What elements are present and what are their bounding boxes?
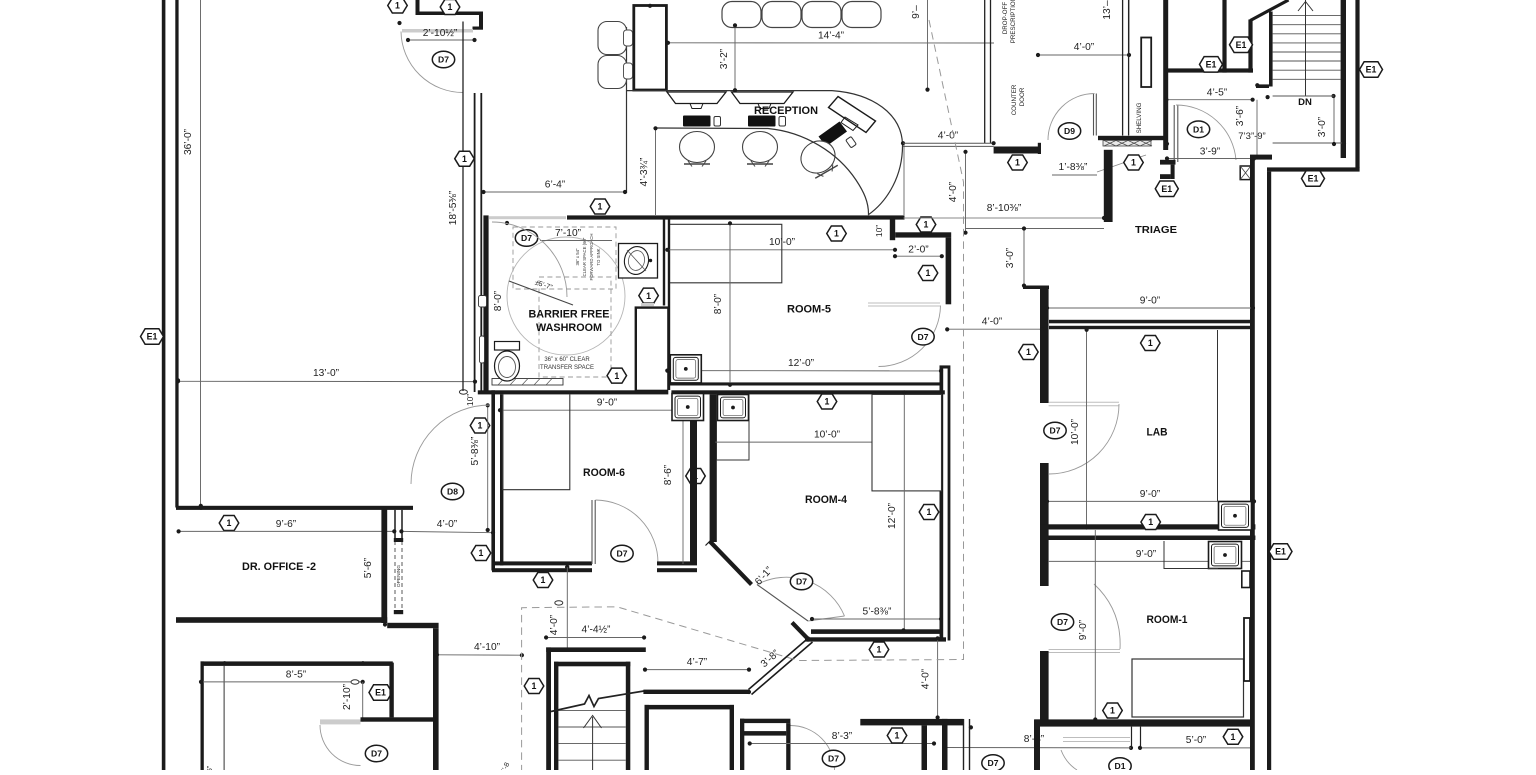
opening dashed jamb a xyxy=(394,541,396,612)
wall: D9 corridor east face xyxy=(1128,0,1130,136)
wall: lower-left room east xyxy=(389,663,393,718)
opening dashed jamb b xyxy=(401,541,403,612)
dim 9'-0 line lab top xyxy=(1047,307,1253,309)
wall: vestibule sw step c xyxy=(1160,174,1171,179)
svg-text:9’-0”: 9’-0” xyxy=(1140,489,1161,500)
svg-text:6’-4”: 6’-4” xyxy=(545,180,566,191)
node stair connector b xyxy=(1266,95,1270,99)
room4 sink B xyxy=(718,395,749,421)
office chair 3 xyxy=(795,135,843,183)
svg-text:1: 1 xyxy=(1231,732,1236,742)
oval tick near D8 wall xyxy=(459,390,467,394)
door tag D7 washroom xyxy=(515,230,537,247)
wall: room5 north east jog vertical xyxy=(890,220,895,241)
keynote hexagon E1 left wall xyxy=(141,329,164,345)
wall: lower-left room west xyxy=(201,661,204,770)
wall: elevator east xyxy=(730,705,734,770)
wall: E-room east xyxy=(1222,0,1226,73)
keynote hexagon 1 below room6 xyxy=(533,573,553,588)
door tag D1 xyxy=(1187,121,1209,138)
diagonal cap a xyxy=(706,538,714,546)
wall: vestibule sw step a xyxy=(1160,160,1176,165)
node stair connector a xyxy=(1255,83,1259,87)
bottom corridor thin line b xyxy=(969,719,971,770)
wall: bottom corridor bar a xyxy=(740,719,790,723)
dim 10'-0 line room4 xyxy=(713,441,939,443)
stair treads lower xyxy=(558,709,625,711)
dim 10'-0 lab vertical line xyxy=(1086,330,1088,528)
door lab leaf (light) xyxy=(1049,401,1119,403)
svg-text:E1: E1 xyxy=(375,688,386,698)
svg-text:8’-10⅜”: 8’-10⅜” xyxy=(987,203,1022,214)
svg-text:D7: D7 xyxy=(1050,426,1061,436)
svg-text:LAB: LAB xyxy=(1147,427,1168,439)
svg-text:5’-0”: 5’-0” xyxy=(1186,735,1207,746)
svg-text:10’-0”: 10’-0” xyxy=(1070,418,1081,445)
armrest tab left 1 xyxy=(624,30,633,46)
svg-text:4’-7”: 4’-7” xyxy=(687,657,708,668)
washroom faucet dot xyxy=(649,259,652,262)
wall: stair outer west xyxy=(546,647,551,770)
svg-text:COUNTER: COUNTER xyxy=(1011,84,1018,115)
dim 4'-0 line upper right xyxy=(1038,54,1129,56)
wall: room6 south west part a xyxy=(492,561,592,565)
svg-text:1’-8⅜”: 1’-8⅜” xyxy=(1059,162,1088,173)
dim 4'-0 line corridor room6 xyxy=(401,531,493,532)
svg-text:E1: E1 xyxy=(1236,40,1247,50)
phone 3 xyxy=(846,136,857,148)
dim 14'-4 line xyxy=(668,42,994,44)
door tag D7 room6 xyxy=(611,545,633,562)
svg-text:ROOM-4: ROOM-4 xyxy=(805,494,848,506)
door fan leaf line xyxy=(757,585,808,622)
door D7 swing arc top-left xyxy=(401,32,464,93)
wall: room4 sw diagonal lower xyxy=(792,623,810,641)
node landing xyxy=(1342,141,1346,145)
keynote hexagon E1 (lower) xyxy=(1200,57,1223,73)
svg-text:1: 1 xyxy=(834,229,839,239)
opening solid jamb upper b xyxy=(401,510,403,542)
svg-text:8’-5”: 8’-5” xyxy=(286,670,307,681)
node washroom nw xyxy=(505,221,509,225)
svg-text:4’-5”: 4’-5” xyxy=(1207,88,1228,99)
svg-text:4’-3¾”: 4’-3¾” xyxy=(639,157,650,186)
waiting chair single left 2 xyxy=(598,56,627,89)
dim 9'-0 line lab bottom xyxy=(1047,500,1254,502)
waiting chair single left 1 xyxy=(598,22,627,55)
node y218 xyxy=(1102,216,1106,220)
dim 12'-0 room4 vertical line xyxy=(903,393,905,630)
svg-text:1: 1 xyxy=(646,291,651,301)
door D1 leaf lines xyxy=(1173,105,1175,162)
svg-text:14’-4”: 14’-4” xyxy=(818,31,845,42)
svg-text:4’-0”: 4’-0” xyxy=(948,181,959,202)
svg-text:1: 1 xyxy=(448,2,453,12)
wall: room5 east upper xyxy=(946,238,952,305)
keynote hexagon 1 west corridor upper xyxy=(470,418,490,433)
svg-text:36” x 60” CLEAR: 36” x 60” CLEAR xyxy=(544,357,590,363)
keynote hexagon 1 right of D9 xyxy=(1124,155,1144,170)
keynote hexagon 1 room1 south xyxy=(1223,729,1243,744)
phone 1 xyxy=(714,117,721,127)
washroom entry door leaf diagonal xyxy=(509,281,573,305)
svg-text:18’-5⅜”: 18’-5⅜” xyxy=(448,190,459,225)
node 9' dim xyxy=(925,88,929,92)
svg-text:D7: D7 xyxy=(438,55,449,65)
door frame hatch second diagonal xyxy=(1240,166,1251,180)
stair lower line y96 xyxy=(1273,95,1334,97)
node counter sw xyxy=(992,141,996,145)
svg-text:DROP-OFF: DROP-OFF xyxy=(1002,2,1009,35)
svg-text:10’-0”: 10’-0” xyxy=(814,430,841,441)
svg-text:1: 1 xyxy=(227,518,232,528)
wall: left exterior inner face xyxy=(175,0,178,508)
svg-text:1: 1 xyxy=(1110,706,1115,716)
node llr b xyxy=(361,661,365,665)
wall: room4 south outer face xyxy=(805,637,946,641)
keynote hexagon 1 washroom east wall xyxy=(639,288,659,303)
svg-text:TRIAGE: TRIAGE xyxy=(1135,224,1177,236)
keynote hexagon 1 corridor west of room6 xyxy=(471,546,491,561)
wall: diagonal corridor b xyxy=(752,642,813,695)
svg-text:D7: D7 xyxy=(988,758,999,768)
door room1 swing arc xyxy=(1094,584,1120,649)
stair center rail xyxy=(1305,0,1307,96)
svg-text:5”: 5” xyxy=(207,765,214,770)
wall: stair inner east xyxy=(626,662,631,770)
dim 10'-0 line room5 xyxy=(667,249,895,251)
washroom sink inner oval xyxy=(627,249,647,272)
washroom grab bar hatching xyxy=(498,379,504,386)
dim 13' extension vertical xyxy=(1128,0,1130,55)
waiting chair top row 2 xyxy=(762,2,801,28)
dim 8'-6 vertical line xyxy=(682,410,684,564)
svg-text:13’–: 13’– xyxy=(1102,0,1113,20)
node at 36'-0 dim bottom xyxy=(199,504,203,508)
svg-text:D7: D7 xyxy=(521,233,532,243)
svg-text:12’-0”: 12’-0” xyxy=(788,358,815,369)
wall: room5 se stub horizontal xyxy=(940,365,951,368)
door D9 leaf xyxy=(1093,94,1095,136)
svg-text:10”: 10” xyxy=(465,394,475,406)
dim 5'-8 3/8 line xyxy=(812,618,941,620)
keyboard 2 (black) xyxy=(748,116,776,127)
corner monitor stand xyxy=(841,117,858,131)
wall: corridor step south of office xyxy=(387,623,438,628)
door swing arc lower-left xyxy=(320,725,361,766)
bottom corridor thin line a xyxy=(963,719,965,770)
stair break line xyxy=(551,691,644,712)
svg-text:4’-0”: 4’-0” xyxy=(437,519,458,530)
monitor stand tab 2 xyxy=(758,104,771,109)
dim 4'-0 stair vertical line xyxy=(566,567,568,647)
door D1 room1 leaf (light) xyxy=(1063,737,1130,739)
opening cap top xyxy=(394,538,403,542)
wall: room5 ne jog horizontal xyxy=(895,232,951,237)
washroom closet rectangle xyxy=(636,308,669,391)
door tag D7 room5 xyxy=(912,328,934,345)
svg-text:D9: D9 xyxy=(1064,126,1075,136)
reception counter inner edge xyxy=(657,128,869,214)
light header top of closet xyxy=(641,303,654,306)
reception desk return rectangle xyxy=(634,6,667,91)
dim 9'-6 line xyxy=(179,530,395,532)
wall: A-B connector stub xyxy=(1250,155,1272,160)
svg-text:ROOM-1: ROOM-1 xyxy=(1147,614,1188,626)
svg-text:36’-0”: 36’-0” xyxy=(183,128,194,155)
lab interior line xyxy=(1217,330,1219,501)
wall: bottom center jamb west xyxy=(922,725,928,770)
office chair 1 xyxy=(680,132,715,167)
wall: vestibule sw step b xyxy=(1171,165,1175,179)
svg-text:1: 1 xyxy=(479,548,484,558)
keynote hexagon 1 top-left a xyxy=(388,0,408,13)
dim 6'-4 line xyxy=(484,191,626,193)
wall: corridor east of stairs xyxy=(433,628,439,770)
door room6 leaf xyxy=(591,500,593,564)
opening solid jamb upper a xyxy=(394,510,396,542)
svg-text:1: 1 xyxy=(532,681,537,691)
node room6 south xyxy=(565,565,569,569)
wall: top jog right vertical xyxy=(479,12,483,30)
armrest tab left 2 xyxy=(624,63,633,79)
keynote hexagon 1 top-left b xyxy=(440,0,460,15)
wall: room1 south xyxy=(1035,719,1252,726)
shelving unit rectangle xyxy=(1141,38,1151,88)
wall: washroom west xyxy=(483,215,488,393)
wall: top jog vertical xyxy=(416,0,420,15)
wall: bottom corridor west vertical xyxy=(740,719,744,770)
svg-text:E1: E1 xyxy=(1206,60,1217,70)
door tag D7 bottom b xyxy=(982,755,1004,772)
svg-text:8’-3”: 8’-3” xyxy=(832,731,853,742)
svg-text:CLEAR SPACE (60”: CLEAR SPACE (60” xyxy=(582,237,587,276)
dim 2'-0 line xyxy=(895,255,942,257)
wall: elevator north xyxy=(645,705,735,710)
door jamb a room1 south xyxy=(1131,727,1133,746)
svg-text:D7: D7 xyxy=(617,549,628,559)
keynote hexagon 1 on divider xyxy=(686,469,706,484)
svg-text:RECEPTION: RECEPTION xyxy=(754,105,818,117)
dim 4'-4 1/2 line xyxy=(546,637,644,639)
keynote hexagon E1 below corner xyxy=(1302,171,1325,187)
svg-text:E1: E1 xyxy=(1308,174,1319,184)
wall: dr office east xyxy=(381,509,387,623)
dim 2'-10 1/2 line xyxy=(408,39,475,41)
toilet tank xyxy=(495,342,520,351)
furniture line below chairs xyxy=(626,90,832,92)
lower-left room interior line xyxy=(223,663,225,770)
svg-text:D1: D1 xyxy=(1193,124,1204,134)
white gap in wall at washroom SE xyxy=(668,390,671,395)
svg-text:3’-2”: 3’-2” xyxy=(719,48,730,69)
svg-text:10”: 10” xyxy=(874,225,884,237)
stair arrowhead xyxy=(584,716,602,729)
room1 counter edge xyxy=(1164,541,1218,569)
svg-text:D7: D7 xyxy=(796,577,807,587)
door D1 room1 swing arc xyxy=(1061,750,1077,770)
clear space dashed rect 1 xyxy=(513,227,616,289)
dim 7'-10 line xyxy=(540,240,612,242)
wall: shelving east wall xyxy=(1163,0,1168,150)
dim 9' vertical line top right xyxy=(927,0,929,90)
dim 3'-2 vertical line xyxy=(734,25,736,90)
svg-text:1: 1 xyxy=(541,575,546,585)
wall: lab south face b xyxy=(1040,536,1255,541)
door D8 swing arc xyxy=(411,405,490,484)
svg-text:D7: D7 xyxy=(1057,617,1068,627)
wall: room4 west xyxy=(710,394,717,542)
washroom turning circle xyxy=(507,237,625,355)
room1 sink xyxy=(1209,542,1242,569)
dashed travel path xyxy=(522,20,964,770)
wall: bottom corridor east vertical xyxy=(786,723,790,770)
door tag D7 bottom a xyxy=(822,750,844,767)
reception desk monitor bay 2 xyxy=(732,92,794,104)
svg-text:1: 1 xyxy=(895,731,900,741)
svg-text:3’-0”: 3’-0” xyxy=(1317,116,1328,137)
lower-left door header (light) xyxy=(320,719,361,724)
washroom wall fixture a xyxy=(479,296,487,308)
room4 exam bed xyxy=(872,394,942,491)
svg-text:5’-8⅜”: 5’-8⅜” xyxy=(470,436,481,465)
washroom grab bar strip south xyxy=(492,379,563,386)
wall: shaft east xyxy=(1248,20,1252,73)
svg-text:TO SINK: TO SINK xyxy=(596,248,601,265)
svg-text:3’-6”: 3’-6” xyxy=(1235,105,1246,126)
wall: room1 west xyxy=(1040,651,1049,720)
svg-text:PRESCRIPTION: PRESCRIPTION xyxy=(1010,0,1017,43)
lab sink xyxy=(1219,502,1252,531)
svg-text:ROOM-6: ROOM-6 xyxy=(583,467,625,479)
wall: outer east wall upper xyxy=(1355,0,1359,168)
dim 36'-0" extension line xyxy=(200,0,202,506)
door jamb b room1 south xyxy=(1140,727,1142,746)
wall: triage west xyxy=(1104,150,1113,222)
keynote hexagon 1 room4 north xyxy=(817,394,837,409)
dim 9'-0 room1 vertical line xyxy=(1094,530,1096,720)
wall: room6 south east part a xyxy=(657,561,697,565)
dim 8'-10 3/8 line xyxy=(966,228,1105,230)
svg-text:13’-0”: 13’-0” xyxy=(313,368,340,379)
keynote hexagon E1 lower-left xyxy=(369,685,392,701)
opening cap bottom xyxy=(394,610,403,614)
reception counter outer edge xyxy=(832,91,903,215)
wall: corridor south of room4 horizontal xyxy=(643,690,749,694)
wall: washroom / room5 divider face a xyxy=(663,216,665,306)
room4 sink A xyxy=(672,394,704,421)
svg-text:DR. OFFICE -2: DR. OFFICE -2 xyxy=(242,561,316,573)
wall: room6 south west part b xyxy=(492,568,592,572)
door frame hatch block xyxy=(1240,166,1251,180)
svg-text:2’-10”: 2’-10” xyxy=(342,683,353,710)
svg-text:1: 1 xyxy=(462,154,467,164)
svg-text:1: 1 xyxy=(598,202,603,212)
waiting chair top row 3 xyxy=(802,2,841,28)
wall: top jog horizontal xyxy=(416,12,484,16)
svg-text:E1: E1 xyxy=(1275,547,1286,557)
keynote hexagon 1 below counter xyxy=(1008,155,1028,170)
dim 8'-3 line right xyxy=(945,747,1131,749)
svg-text:8’-0”: 8’-0” xyxy=(493,290,504,311)
wall: room4 south inner face xyxy=(811,629,940,634)
node corner 4'-7 xyxy=(747,690,751,694)
line wall-face y218 xyxy=(904,217,1105,219)
svg-text:1: 1 xyxy=(927,507,932,517)
dim 4'-0 vertical (corridor) line xyxy=(965,152,967,233)
door tag D8 xyxy=(441,483,463,500)
waiting chair top row 4 xyxy=(842,2,881,28)
wall: stair east wall xyxy=(1341,0,1346,158)
wall: corridor east face xyxy=(948,369,951,641)
svg-text:4’-0”: 4’-0” xyxy=(549,614,560,635)
counter front line a xyxy=(903,142,994,144)
counter wall face a xyxy=(984,0,986,143)
wall: dr office south xyxy=(176,617,387,623)
svg-text:1: 1 xyxy=(924,220,929,230)
svg-text:ROOM-5: ROOM-5 xyxy=(787,304,831,316)
wall: outer east corner horizontal xyxy=(1267,167,1360,171)
node extra left xyxy=(1165,142,1169,146)
keynote hexagon 1 below room4 xyxy=(869,642,889,657)
node on desk top xyxy=(648,4,652,8)
wall: triage sw jut xyxy=(1023,286,1049,290)
oval tick 4'-0 stair xyxy=(555,601,563,605)
wall: shelving south wall xyxy=(1098,136,1164,140)
keynote hexagon 1 room1 interior xyxy=(1103,703,1123,718)
svg-text:1: 1 xyxy=(1148,517,1153,527)
washroom wall fixture b xyxy=(480,336,485,363)
node room5 door bottom xyxy=(939,369,943,373)
svg-text:E1: E1 xyxy=(147,332,158,342)
node 3'-2 top xyxy=(733,23,737,27)
node stair dim top xyxy=(565,565,569,569)
room1 window stub xyxy=(1244,618,1250,681)
door lab swing arc xyxy=(1049,404,1119,474)
svg-text:1: 1 xyxy=(395,1,400,11)
wall: lab north face a xyxy=(1049,320,1252,324)
svg-text:E1: E1 xyxy=(1161,184,1172,194)
keynote hexagon 1 room4 east xyxy=(919,505,939,520)
wall: room6 west inner xyxy=(500,394,503,565)
svg-text:E1: E1 xyxy=(1366,65,1377,75)
wall: stair inner west xyxy=(554,662,558,770)
wall: room6 west outer xyxy=(491,390,495,570)
wall: left exterior outer face xyxy=(162,0,166,770)
wall: diagonal corridor a xyxy=(749,637,810,690)
wall: lab south face a xyxy=(1040,524,1255,529)
office chair 2 xyxy=(743,132,778,167)
keynote hexagon 1 on reception west wall xyxy=(455,151,475,166)
wall: E-room west (x1163) already drawn; E-room south wall xyxy=(1166,68,1253,72)
svg-text:DN: DN xyxy=(1298,97,1312,108)
door tag D7 room4 xyxy=(790,573,812,590)
room1 bed rectangle xyxy=(1132,659,1244,717)
wall: outer east wall lower xyxy=(1267,172,1271,770)
washroom vanity counter xyxy=(619,244,658,279)
svg-text:1: 1 xyxy=(1131,158,1136,168)
dim 2'-10 vertical line xyxy=(362,682,364,720)
svg-text:4’-10”: 4’-10” xyxy=(474,642,501,653)
wall: lower-left room south-east xyxy=(361,717,436,721)
clear space dashed rect 2 xyxy=(539,277,611,377)
wall: lab corridor west upper xyxy=(1040,286,1049,404)
door fan arc xyxy=(757,577,845,616)
wall: stair inner north xyxy=(554,662,630,667)
dim 3'-9 line xyxy=(1167,158,1254,160)
wall: reception west thin wall xyxy=(462,22,464,392)
svg-text:9’-0”: 9’-0” xyxy=(1136,549,1157,560)
